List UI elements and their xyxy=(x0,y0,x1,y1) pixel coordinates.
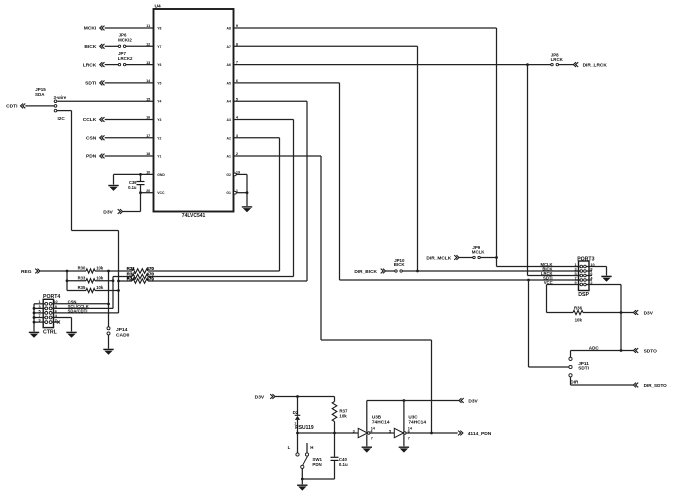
svg-text:10k: 10k xyxy=(339,414,347,419)
svg-text:R30: R30 xyxy=(78,266,86,271)
svg-text:3-wire: 3-wire xyxy=(54,95,67,100)
svg-text:7: 7 xyxy=(371,436,373,440)
svg-text:BICK: BICK xyxy=(84,44,96,50)
svg-text:G1: G1 xyxy=(226,191,231,195)
svg-text:Y3: Y3 xyxy=(157,118,161,122)
svg-text:R34: R34 xyxy=(127,276,136,281)
svg-text:LRCK: LRCK xyxy=(551,57,564,62)
svg-text:3: 3 xyxy=(38,305,40,309)
svg-text:LRCK: LRCK xyxy=(83,62,97,68)
svg-text:CSN: CSN xyxy=(86,136,97,142)
svg-text:R35: R35 xyxy=(78,285,86,290)
svg-text:BICK: BICK xyxy=(394,262,406,267)
svg-text:A8: A8 xyxy=(227,27,231,31)
svg-text:D2: D2 xyxy=(293,410,299,415)
svg-text:VCC: VCC xyxy=(157,191,165,195)
svg-text:0.1u: 0.1u xyxy=(128,185,137,190)
svg-text:DIR_BICK: DIR_BICK xyxy=(354,269,377,275)
svg-text:D3V: D3V xyxy=(468,398,478,404)
svg-text:DIR: DIR xyxy=(570,380,579,385)
svg-text:Y5: Y5 xyxy=(157,81,161,85)
svg-text:CAD0: CAD0 xyxy=(116,333,130,339)
svg-text:JP14: JP14 xyxy=(116,327,128,333)
svg-text:MCLK: MCLK xyxy=(472,249,486,254)
svg-text:PORT3: PORT3 xyxy=(577,256,594,262)
svg-text:Y8: Y8 xyxy=(157,27,161,31)
svg-text:9: 9 xyxy=(38,319,40,323)
svg-text:G2: G2 xyxy=(226,173,231,177)
svg-text:10k: 10k xyxy=(96,266,104,271)
svg-text:10k: 10k xyxy=(96,275,104,280)
svg-text:74HC14: 74HC14 xyxy=(408,420,426,426)
svg-text:L: L xyxy=(288,445,291,450)
svg-text:MCKI: MCKI xyxy=(84,26,97,32)
svg-text:D3V: D3V xyxy=(255,394,265,400)
svg-text:R33: R33 xyxy=(78,275,86,280)
svg-text:SDTI: SDTI xyxy=(578,366,589,371)
svg-text:0.1u: 0.1u xyxy=(339,462,348,467)
svg-text:10k: 10k xyxy=(96,285,104,290)
svg-text:10k: 10k xyxy=(575,318,583,323)
svg-text:A5: A5 xyxy=(227,81,231,85)
svg-text:7: 7 xyxy=(408,436,410,440)
svg-text:LRCK2: LRCK2 xyxy=(118,56,133,61)
svg-text:PORT4: PORT4 xyxy=(43,294,60,300)
svg-text:CDTI: CDTI xyxy=(6,104,18,110)
svg-text:4114_PDN: 4114_PDN xyxy=(468,431,492,437)
svg-text:A6: A6 xyxy=(227,63,231,67)
svg-text:ADC: ADC xyxy=(589,345,600,350)
svg-text:Y7: Y7 xyxy=(157,45,161,49)
svg-text:U3C: U3C xyxy=(408,415,418,420)
svg-text:Y4: Y4 xyxy=(157,100,161,104)
svg-text:H: H xyxy=(310,445,313,450)
svg-text:A7: A7 xyxy=(227,45,231,49)
svg-text:CCLK: CCLK xyxy=(83,117,97,123)
svg-text:CTRL: CTRL xyxy=(43,329,58,335)
svg-text:DSP: DSP xyxy=(578,292,589,298)
svg-text:5: 5 xyxy=(389,429,391,433)
svg-text:PDN: PDN xyxy=(86,154,97,160)
svg-text:5: 5 xyxy=(38,309,40,313)
svg-text:3: 3 xyxy=(353,429,355,433)
svg-text:A4: A4 xyxy=(227,100,231,104)
svg-text:D3V: D3V xyxy=(644,310,654,316)
svg-text:74HC14: 74HC14 xyxy=(372,420,390,426)
svg-text:R37: R37 xyxy=(339,408,348,413)
svg-text:RSU119: RSU119 xyxy=(295,425,314,431)
svg-text:A3: A3 xyxy=(227,118,231,122)
svg-text:470: 470 xyxy=(147,276,155,281)
svg-text:U4: U4 xyxy=(155,4,161,10)
svg-text:Y2: Y2 xyxy=(157,136,161,140)
svg-text:REG: REG xyxy=(21,269,32,275)
svg-text:Y6: Y6 xyxy=(157,63,161,67)
svg-text:D3V: D3V xyxy=(103,209,113,215)
svg-text:MCKI2: MCKI2 xyxy=(118,37,132,42)
svg-text:PDN: PDN xyxy=(312,462,321,467)
svg-text:DIR_MCLK: DIR_MCLK xyxy=(426,256,451,262)
svg-text:SDA: SDA xyxy=(35,92,45,97)
svg-text:A1: A1 xyxy=(227,155,231,159)
svg-text:SDTI: SDTI xyxy=(85,81,97,87)
svg-text:GND: GND xyxy=(157,173,165,177)
svg-text:SDA/CDTI: SDA/CDTI xyxy=(68,309,88,314)
svg-text:I2C: I2C xyxy=(58,116,66,121)
svg-text:R36: R36 xyxy=(574,306,583,311)
svg-text:U3B: U3B xyxy=(372,415,382,420)
svg-text:A2: A2 xyxy=(227,136,231,140)
svg-text:74LVC541: 74LVC541 xyxy=(182,213,206,219)
svg-text:1: 1 xyxy=(38,300,40,304)
svg-text:DIR_LRCK: DIR_LRCK xyxy=(583,62,608,68)
svg-text:DIR_SDTO: DIR_SDTO xyxy=(644,383,668,388)
svg-text:7: 7 xyxy=(38,314,40,318)
svg-text:Y1: Y1 xyxy=(157,155,161,159)
svg-text:SDTO: SDTO xyxy=(644,348,658,354)
